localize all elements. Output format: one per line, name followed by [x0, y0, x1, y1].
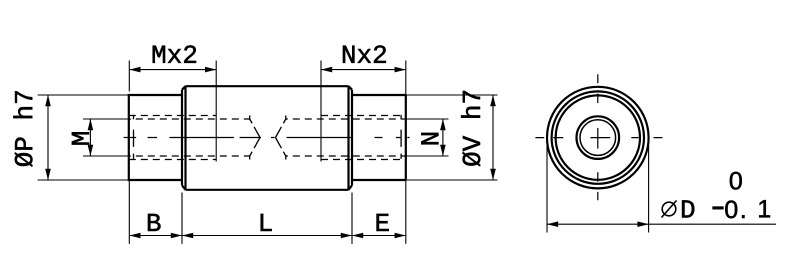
end view journal circle [556, 95, 640, 179]
end view vertical centerline [597, 74, 599, 200]
drill cone left [250, 119, 260, 156]
left journal cylinder outline [129, 95, 182, 180]
dimension B L E [129, 180, 406, 244]
label tolerance 0 [725, 201, 737, 219]
dimension D diameter [547, 140, 776, 233]
label tolerance minus sign [713, 207, 724, 210]
dimension V diameter [406, 95, 498, 180]
drill cone right [276, 119, 286, 156]
label D diameter symbol [662, 201, 677, 218]
label E [377, 214, 389, 231]
label tolerance 1 [759, 200, 770, 217]
label N [421, 133, 438, 144]
right journal cylinder outline [352, 95, 406, 180]
dimension N bore [406, 119, 449, 156]
label M [72, 132, 89, 144]
dimension Mx2 [129, 61, 216, 162]
label tolerance upper 0 [730, 172, 742, 190]
label V h7 [461, 91, 480, 166]
label D [682, 200, 694, 217]
label Nx2 [343, 45, 386, 62]
center body cylinder outline [182, 86, 352, 190]
end view drill circle [580, 120, 616, 156]
hidden drill lines left [129, 119, 250, 156]
label P h7 [13, 91, 32, 166]
end view thread major circle [577, 116, 620, 159]
end view horizontal centerline [535, 137, 662, 139]
end view chamfer circle [552, 91, 644, 183]
label B [148, 214, 161, 231]
centerline side view [124, 137, 410, 139]
hidden drill lines right [286, 119, 406, 156]
label Mx2 [153, 45, 196, 62]
hidden thread major lines left [129, 116, 216, 160]
thread entry chamfer left [133, 115, 135, 159]
dimension M bore [83, 119, 129, 156]
end view outer circle [547, 87, 649, 189]
hidden thread major lines right [321, 116, 406, 160]
label tolerance dot [742, 215, 744, 218]
dimension P diameter [38, 95, 129, 180]
label L [261, 214, 272, 231]
thread entry chamfer right [400, 115, 402, 159]
dimension Nx2 [321, 61, 406, 162]
